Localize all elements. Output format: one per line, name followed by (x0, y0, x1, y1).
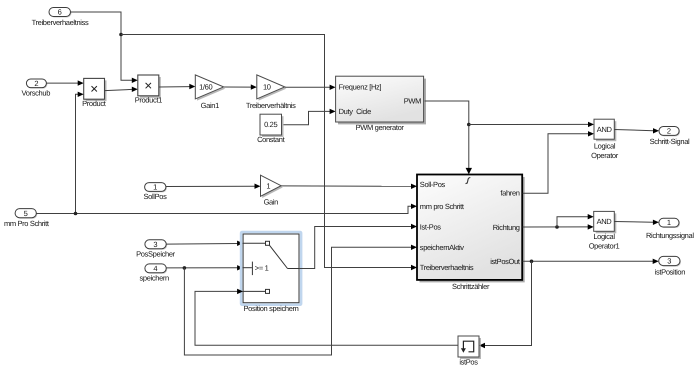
svg-text:Gain: Gain (264, 197, 279, 206)
svg-text:2: 2 (667, 127, 671, 136)
svg-text:Vorschub: Vorschub (22, 89, 51, 98)
output port 2 Schritt-Signal (650, 127, 690, 146)
svg-text:istPosOut: istPosOut (490, 257, 521, 266)
junction on port6 wire (119, 33, 123, 37)
svg-text:Richtungssignal: Richtungssignal (646, 231, 694, 240)
wire istPos output to switch input 3 (195, 289, 458, 346)
wire Gain1 to Treiberverhaeltnis gain (224, 84, 257, 89)
svg-text:Richtung: Richtung (493, 223, 520, 232)
svg-text:1: 1 (266, 182, 270, 191)
svg-text:speichernAktiv: speichernAktiv (420, 243, 464, 252)
wire speichern branch to Schrittzaehler speichernAktiv input (184, 245, 417, 355)
gain G1 (Gain1 1/60) (195, 75, 225, 110)
svg-text:5: 5 (24, 209, 28, 218)
gain G2 (Treiberverhaeltnis 10) (246, 75, 296, 110)
svg-text:Logical: Logical (593, 232, 615, 241)
svg-text:1: 1 (153, 183, 157, 192)
wire Product output to Product1 input 2 (105, 87, 138, 92)
wire Treiberverhaeltnis gain to PWM Frequenz input (285, 85, 336, 90)
output port 3 istPosition (655, 256, 686, 276)
wire fahren to Logical Operator input 2 (523, 131, 594, 193)
gain G3 (Gain 1) (261, 175, 283, 206)
svg-text:2: 2 (34, 79, 38, 88)
svg-text:Product: Product (82, 99, 107, 108)
subsystem PWM generator (336, 76, 426, 132)
wire PWM junction to Logical Operator input 1 (469, 122, 594, 127)
junction on mm wire (74, 212, 78, 216)
memory block istPos (458, 336, 481, 366)
wire Logical Operator to output port Schritt-Signal (614, 128, 659, 133)
svg-text:PosSpeicher: PosSpeicher (136, 250, 176, 259)
svg-text:istPos: istPos (459, 357, 478, 366)
svg-text:Duty Cicle: Duty Cicle (339, 107, 372, 116)
svg-text:6: 6 (58, 8, 62, 17)
wire SollPos to Gain (166, 184, 261, 189)
wire PWM output to Schrittzaehler trigger (425, 101, 472, 174)
svg-text:Constant: Constant (257, 135, 285, 144)
junction on PWM wire (467, 123, 471, 127)
wire Vorschub to Product input 1 (46, 80, 83, 85)
svg-text:Position speichern: Position speichern (244, 304, 299, 313)
wire mm Pro Schritt to Schrittzaehler mm pro Schritt input (36, 204, 417, 214)
wire Gain to Schrittzaehler Soll-Pos input (281, 184, 417, 189)
wire port6 to Product1 top input (71, 12, 138, 83)
wire speichern to switch input 2 (166, 265, 243, 270)
wire port6 branch to Schrittzaehler Treiberverhaeltnis input (121, 35, 417, 271)
trigger symbol on Schrittzaehler (466, 178, 471, 184)
svg-text:PWM: PWM (404, 96, 421, 105)
svg-text:istPosition: istPosition (655, 267, 686, 276)
svg-text:10: 10 (263, 83, 271, 92)
svg-text:fahren: fahren (500, 188, 519, 197)
svg-text:Ist-Pos: Ist-Pos (420, 223, 441, 232)
svg-text:1/60: 1/60 (199, 83, 212, 92)
svg-text:SollPos: SollPos (144, 192, 168, 201)
junction on speichern wire (183, 266, 187, 270)
wire switch output to Schrittzaehler Ist-Pos input (299, 224, 417, 269)
output port 1 Richtungssignal (646, 218, 694, 240)
product P (Product) (82, 78, 107, 107)
svg-text:1: 1 (667, 218, 671, 227)
svg-text:AND: AND (597, 125, 613, 134)
svg-text:0.25: 0.25 (264, 120, 277, 129)
svg-text:4: 4 (153, 264, 157, 273)
svg-text:mm pro Schritt: mm pro Schritt (420, 202, 465, 211)
svg-text:Treiberverhältnis: Treiberverhältnis (246, 101, 296, 110)
product P1 (Product1) (135, 75, 162, 104)
constant C (0.25) (257, 114, 285, 144)
svg-text:speichern: speichern (140, 274, 170, 283)
svg-text:Schritt-Signal: Schritt-Signal (650, 137, 690, 146)
svg-text:Schrittzähler: Schrittzähler (452, 282, 490, 291)
input port 6 Treiberverhaeltniss (32, 8, 89, 28)
svg-text:>= 1: >= 1 (255, 263, 269, 272)
logic gate U2 (Logical Operator1 AND) (589, 211, 620, 250)
svg-text:3: 3 (667, 257, 671, 266)
svg-text:Treiberverhaeltnis: Treiberverhaeltnis (420, 263, 474, 272)
input port 3 PosSpeicher (136, 240, 176, 259)
junction on Richtung wire (555, 225, 559, 229)
svg-text:PWM generator: PWM generator (356, 123, 405, 132)
wire Richtung to Logical Operator1 (523, 224, 594, 229)
svg-text:Frequenz [Hz]: Frequenz [Hz] (339, 83, 382, 92)
wire istPosOut branch down to istPos memory input (479, 261, 532, 348)
subsystem Schrittzaehler (417, 175, 525, 291)
logic gate U1 (Logical Operator AND) (591, 119, 619, 160)
svg-text:Logical: Logical (594, 142, 616, 151)
wire mm-line junction up to Product input 2 (76, 92, 84, 214)
switch SW (Position speichern) selected (241, 232, 301, 313)
svg-text:Product1: Product1 (135, 95, 162, 104)
svg-text:Operator: Operator (591, 151, 619, 160)
svg-text:3: 3 (153, 240, 157, 249)
wire Constant to PWM Duty Cicle input (284, 109, 336, 125)
input port 1 SollPos (144, 183, 168, 202)
wire PosSpeicher to switch input 1 (166, 241, 243, 246)
input port 2 Vorschub (22, 79, 51, 98)
svg-text:Treiberverhaeltniss: Treiberverhaeltniss (32, 18, 89, 27)
wire Logical Operator1 to output port Richtungssignal (614, 220, 659, 225)
svg-text:Gain1: Gain1 (201, 101, 219, 110)
wire Product1 output to Gain1 (159, 84, 196, 89)
svg-text:Operator1: Operator1 (589, 241, 620, 250)
svg-text:Soll-Pos: Soll-Pos (420, 180, 446, 189)
wire Richtung branch to Logical Operator1 input 1 (557, 214, 594, 227)
junction on istPosOut wire (530, 260, 534, 264)
wire istPosOut to output port istPosition (523, 259, 659, 264)
svg-text:AND: AND (597, 217, 613, 226)
input port 4 speichern (140, 264, 170, 283)
input port 5 mm Pro Schritt (4, 209, 50, 229)
svg-text:mm Pro Schritt: mm Pro Schritt (4, 219, 50, 228)
